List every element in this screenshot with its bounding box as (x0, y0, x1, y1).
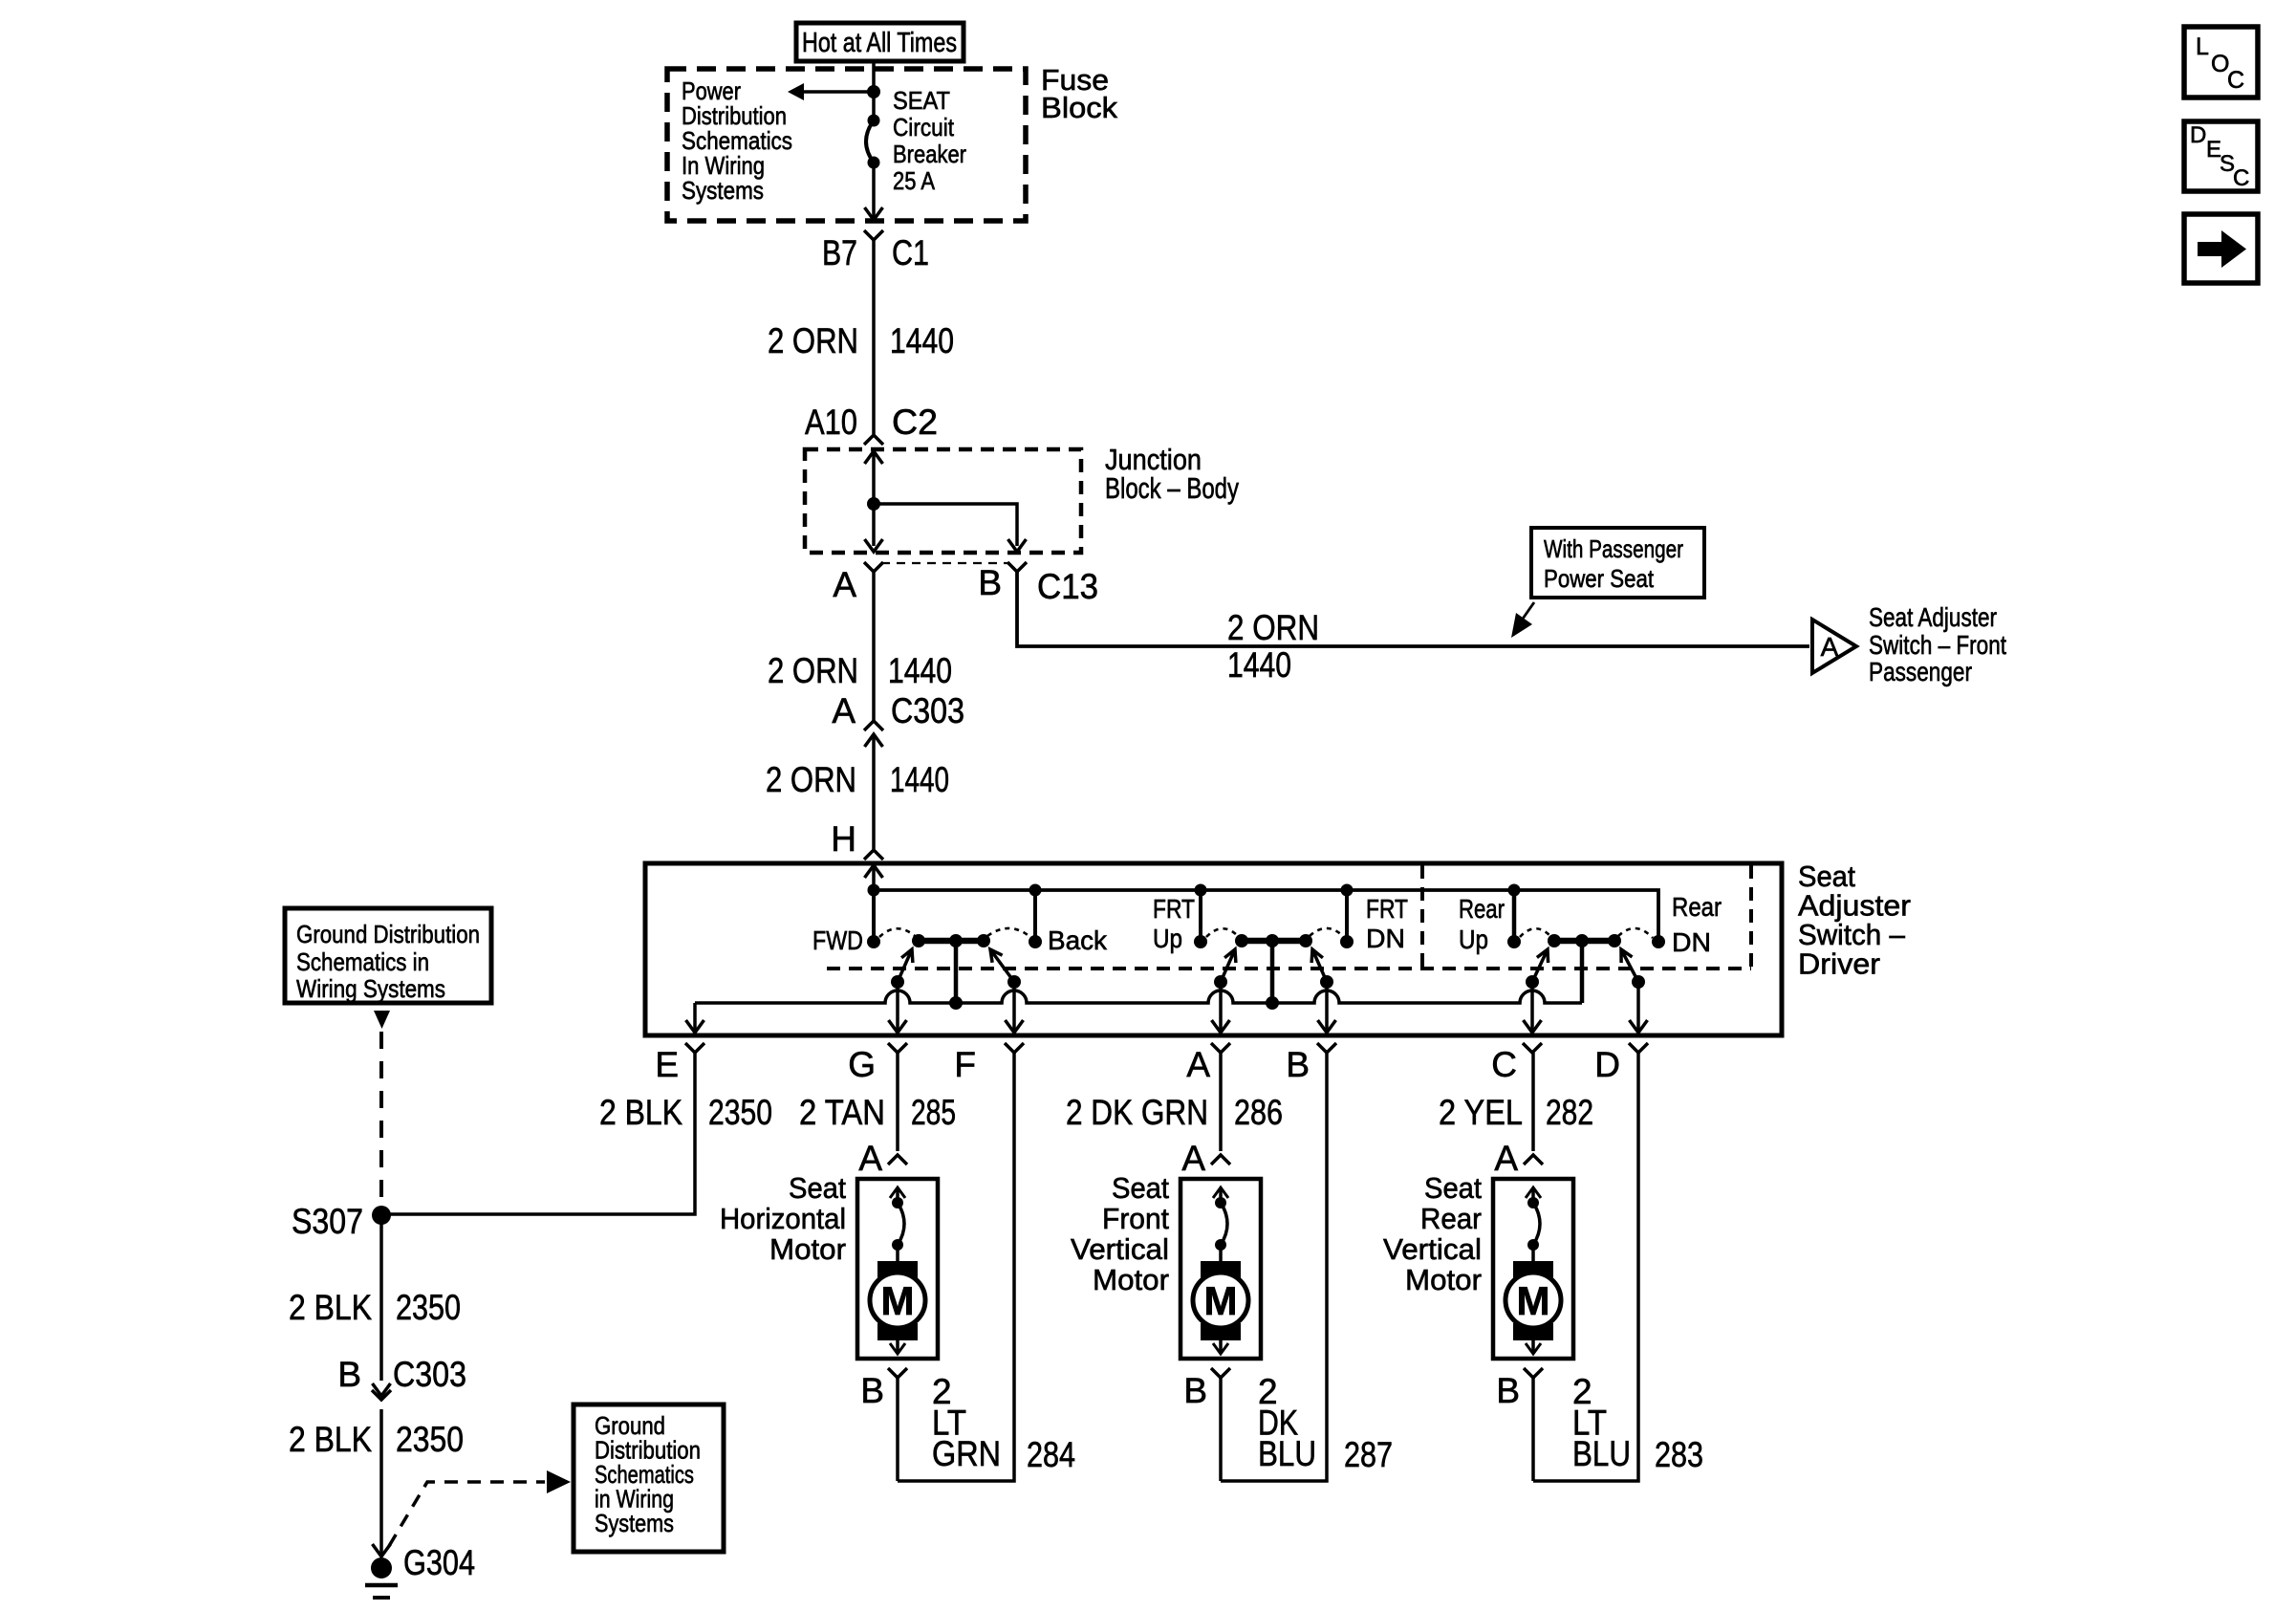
motor M - Seat Front Vertical Motor (1180, 1179, 1261, 1359)
svg-text:Up: Up (1153, 924, 1182, 953)
motor M - Seat Horizontal Motor (857, 1179, 938, 1359)
nav icon box LOC (2184, 27, 2258, 98)
svg-text:A10: A10 (805, 403, 857, 442)
note box: Ground Distribution Schematics in Wiring Systems (upper) (285, 908, 491, 1003)
wire - switch output C drop to pin (1524, 982, 1542, 1033)
label FRT Up (1153, 894, 1195, 953)
wire label 2 BLK 2350 (S307 to C303) (289, 1288, 461, 1327)
svg-text:DN: DN (1672, 927, 1711, 957)
dashed contact arc Rear Up (1520, 928, 1550, 937)
wire - dashed ground distribution link (379, 1032, 383, 1207)
label: Seat Horizontal Motor (720, 1171, 846, 1266)
node - bus junction at FRT DN (1341, 884, 1354, 897)
connector C13 pin A (driver feed) (833, 562, 883, 604)
svg-text:284: 284 (1027, 1435, 1075, 1474)
junction block - body (dashed outline) (805, 449, 1081, 553)
svg-text:Block: Block (1041, 91, 1118, 124)
svg-text:M: M (881, 1278, 915, 1323)
svg-text:B7: B7 (822, 233, 857, 272)
svg-text:2350: 2350 (396, 1420, 464, 1459)
wire - 2 ORN 1440 C13 to C303 (872, 571, 876, 721)
svg-text:DN: DN (1366, 924, 1405, 953)
wire - breaker output to connector C1 (865, 163, 883, 220)
svg-text:285: 285 (911, 1093, 956, 1132)
svg-text:BLU: BLU (1258, 1434, 1316, 1473)
contact - FRT DN (1340, 935, 1354, 948)
off-page connector triangle A - Seat Adjuster Switch Front Passenger (1812, 620, 1856, 673)
wire - arrow to power distribution schematics (788, 83, 874, 100)
svg-text:Rear: Rear (1420, 1202, 1482, 1235)
svg-text:D: D (1594, 1045, 1620, 1084)
wire label 2 ORN 1440 (passenger branch) (1227, 608, 1319, 685)
node - junction dot to power distribution arrow (867, 85, 880, 98)
svg-text:FRT: FRT (1366, 894, 1408, 924)
svg-text:B: B (978, 563, 1002, 602)
svg-text:Circuit: Circuit (893, 113, 955, 142)
svg-text:Rear: Rear (1672, 892, 1722, 922)
dashed contact arc Rear DN (1618, 928, 1653, 938)
wire - wiper common drop (front vertical) (1266, 941, 1279, 1010)
fuse block outline (dashed) (667, 69, 1026, 221)
connector - Seat Front Vertical Motor pin B (1183, 1368, 1230, 1481)
node - switch output F (1007, 975, 1021, 989)
svg-text:2 ORN: 2 ORN (768, 651, 858, 690)
svg-text:B: B (1286, 1045, 1310, 1084)
wire - bus drop to FRT DN contact (1345, 890, 1349, 942)
svg-text:Schematics in: Schematics in (296, 947, 429, 976)
contact - Rear DN (1652, 935, 1665, 948)
wire - switch output A drop to pin (1212, 982, 1230, 1033)
switch wiper bar - front vertical motor switch (1235, 934, 1312, 947)
node - bus junction at Back (1029, 884, 1042, 897)
dashed contact arc FWD (879, 928, 915, 937)
connector - switch pin G (848, 1043, 907, 1084)
svg-text:A: A (833, 565, 856, 604)
svg-text:Motor: Motor (1405, 1263, 1482, 1296)
svg-text:2 ORN: 2 ORN (766, 760, 856, 799)
svg-text:BLU: BLU (1572, 1434, 1631, 1473)
svg-text:Ground Distribution: Ground Distribution (296, 920, 480, 948)
solid arrowhead from ground distribution note (374, 1011, 390, 1029)
svg-text:B: B (1183, 1371, 1207, 1410)
svg-text:Up: Up (1459, 925, 1488, 954)
svg-text:M: M (1517, 1278, 1550, 1323)
svg-text:25 A: 25 A (893, 166, 936, 195)
svg-text:1440: 1440 (890, 321, 954, 360)
svg-text:FRT: FRT (1153, 894, 1195, 924)
svg-text:B: B (337, 1355, 361, 1394)
svg-text:Motor: Motor (1093, 1263, 1169, 1296)
svg-text:A: A (1821, 632, 1839, 662)
node - bus junction at FWD (868, 884, 880, 897)
wire - switch feed entering pin H (865, 865, 883, 890)
wire label 2 DK GRN 286 (1066, 1093, 1283, 1132)
label Rear DN (1672, 892, 1722, 957)
svg-text:S307: S307 (292, 1202, 363, 1241)
wire - switch output B drop to pin (1318, 982, 1336, 1033)
svg-text:Wiring Systems: Wiring Systems (296, 974, 445, 1003)
label FRT DN (1366, 894, 1408, 953)
svg-text:2350: 2350 (396, 1288, 461, 1327)
contact - Back (1029, 935, 1042, 948)
fuse block label (1041, 63, 1118, 124)
svg-text:Seat Adjuster: Seat Adjuster (1869, 602, 1997, 632)
ground G304 (365, 1543, 475, 1598)
svg-text:Front: Front (1102, 1202, 1169, 1235)
svg-text:Power Seat: Power Seat (1544, 564, 1655, 593)
svg-text:C303: C303 (393, 1355, 466, 1394)
wire - pin F to horizontal motor pin B loop (898, 1053, 1014, 1481)
wire - switch common return line to pin E (with hops) (695, 991, 1582, 1003)
wire - pin C to rear vertical motor pin A (1531, 1053, 1535, 1151)
connector - switch pin H (831, 819, 883, 860)
wire label 2 LT BLU 283 (1572, 1372, 1703, 1474)
svg-text:1440: 1440 (890, 760, 949, 799)
svg-text:C: C (2227, 67, 2244, 94)
svg-text:2 DK GRN: 2 DK GRN (1066, 1093, 1208, 1132)
svg-text:2 BLK: 2 BLK (289, 1420, 372, 1459)
wire label 2 LT GRN 284 (932, 1372, 1075, 1474)
connector - Seat Rear Vertical Motor pin B (1496, 1368, 1543, 1481)
svg-text:A: A (1494, 1139, 1518, 1178)
svg-text:2 BLK: 2 BLK (289, 1288, 372, 1327)
wire - pin E drop (686, 1003, 704, 1033)
wire label 2 BLK 2350 (C303 to G304) (289, 1420, 464, 1459)
connector - switch pin F (954, 1043, 1024, 1084)
wire - 2 ORN 1440 branch to passenger seat switch (1017, 571, 1809, 646)
contact - FWD (867, 935, 880, 948)
svg-text:Driver: Driver (1798, 947, 1880, 981)
wire - bus drop to FRT Up contact (1199, 890, 1202, 942)
contact - FRT Up (1194, 935, 1207, 948)
svg-text:M: M (1204, 1278, 1238, 1323)
node - bus junction at Rear Up (1508, 884, 1521, 897)
switch throw arrow - output G to wiper (898, 949, 913, 982)
svg-text:2350: 2350 (708, 1093, 772, 1132)
dashed contact arc Back (987, 928, 1031, 938)
node - switch output A (1214, 975, 1227, 989)
svg-text:Motor: Motor (769, 1232, 846, 1266)
svg-text:C: C (2233, 165, 2249, 191)
svg-text:Passenger: Passenger (1869, 657, 1972, 686)
svg-text:A: A (858, 1139, 882, 1178)
svg-text:Back: Back (1048, 925, 1108, 955)
wire label 2 ORN 1440 (circuit 1440, fuse to junction block) (768, 321, 954, 360)
wire - pin B to front vertical motor pin B loop (1221, 1053, 1327, 1481)
connector - switch pin B (1286, 1043, 1336, 1084)
switch throw arrow - output D to wiper (1621, 949, 1638, 982)
node S - junction block splice (867, 497, 880, 511)
svg-text:2 ORN: 2 ORN (1227, 608, 1319, 647)
wire - bus drop to Back contact (1033, 890, 1037, 942)
wire - switch output F drop to pin (1006, 982, 1024, 1033)
svg-text:C1: C1 (892, 233, 929, 272)
svg-text:2 ORN: 2 ORN (768, 321, 858, 360)
svg-text:C: C (1491, 1045, 1517, 1084)
label: Seat Front Vertical Motor (1071, 1171, 1169, 1296)
label: SEAT Circuit Breaker 25 A (893, 86, 966, 195)
svg-text:Switch – Front: Switch – Front (1869, 630, 2006, 660)
connector - Seat Front Vertical Motor pin A (1181, 1139, 1230, 1178)
wire - junction block branch to C13 pin B (874, 504, 1027, 552)
dashed contact arc FRT Up (1206, 928, 1238, 937)
label FWD (812, 925, 863, 955)
connector - switch pin E (655, 1043, 704, 1084)
svg-text:Seat: Seat (789, 1171, 846, 1205)
connector - Seat Rear Vertical Motor pin A (1494, 1139, 1543, 1178)
svg-text:A: A (1181, 1139, 1205, 1178)
svg-text:C2: C2 (892, 403, 938, 442)
svg-text:Horizontal: Horizontal (720, 1202, 846, 1235)
connector C2 pin A10 (805, 403, 938, 445)
svg-text:C303: C303 (891, 691, 964, 730)
nav icon box arrow (2184, 214, 2258, 283)
wire label 2 TAN 285 (799, 1093, 956, 1132)
wire - bus drop to FWD contact (872, 890, 876, 942)
svg-text:E: E (655, 1045, 679, 1084)
svg-text:A: A (832, 691, 856, 730)
wire label 2 YEL 282 (1439, 1093, 1593, 1132)
svg-text:B: B (860, 1371, 884, 1410)
wire - dashed link to ground distribution note (lower) (389, 1470, 571, 1546)
svg-text:G: G (848, 1045, 876, 1084)
switch assembly box - Seat Adjuster Switch Driver (645, 863, 1782, 1035)
switch wiper bar - horizontal motor switch (912, 934, 990, 947)
wire - battery feed into fuse block (872, 63, 876, 120)
wire - pin G to horizontal motor pin A (896, 1053, 899, 1151)
svg-text:Hot at All Times: Hot at All Times (802, 28, 957, 58)
connector - switch pin A (1186, 1043, 1230, 1084)
splice S307 (292, 1202, 391, 1241)
wire label 2 ORN 1440 (C303 to switch) (766, 760, 949, 799)
note box: Ground Distribution Schematics in Wiring Systems (lower) (574, 1404, 724, 1552)
label Rear Up (1459, 894, 1505, 954)
dashed contact arc FRT DN (1310, 928, 1345, 938)
label Back (1048, 925, 1108, 955)
svg-text:Seat: Seat (1112, 1171, 1169, 1205)
node - switch output B (1320, 975, 1333, 989)
wire - switch output D drop to pin (1630, 982, 1648, 1033)
wire label 2 DK BLU 287 (1258, 1372, 1393, 1474)
dashed actuator tie bar (switch knob, left+right sections) (827, 865, 1751, 969)
note text: Power Distribution Schematics In Wiring Systems (682, 76, 792, 205)
svg-text:G304: G304 (403, 1543, 475, 1582)
svg-text:286: 286 (1234, 1093, 1283, 1132)
svg-text:1440: 1440 (1227, 645, 1291, 685)
connector - switch pin D (1594, 1043, 1648, 1084)
label: Seat Adjuster Switch - Front Passenger (1869, 602, 2006, 686)
svg-text:H: H (831, 819, 856, 859)
svg-text:1440: 1440 (888, 651, 952, 690)
wire - S307 to C303 pin B (373, 1215, 391, 1396)
connector C13 pin B (passenger feed) (978, 562, 1098, 606)
svg-text:Block – Body: Block – Body (1105, 471, 1239, 505)
wire - pin D to rear vertical motor pin B loop (1533, 1053, 1638, 1481)
wire - junction block internal feed (865, 451, 883, 552)
node - switch output C (1526, 975, 1539, 989)
svg-text:GRN: GRN (932, 1434, 1001, 1473)
node B+ feed label box 'Hot at All Times' (796, 23, 964, 61)
switch wiper bar - rear vertical motor switch (1548, 934, 1621, 947)
node - bus junction at FRT Up (1195, 884, 1207, 897)
wire - switch B+ bus (874, 890, 1658, 942)
svg-text:283: 283 (1655, 1435, 1703, 1474)
connector - Seat Horizontal Motor pin A (858, 1139, 907, 1178)
wire - switch output G drop to pin (889, 982, 907, 1033)
svg-text:SEAT: SEAT (893, 86, 950, 115)
circuit breaker CB - SEAT Circuit Breaker 25 A (866, 115, 880, 169)
wire label 2 ORN 1440 (junction block to C303) (768, 651, 952, 690)
contact - Rear Up (1507, 935, 1521, 948)
svg-text:Seat: Seat (1424, 1171, 1482, 1205)
switch throw arrow - output C to wiper (1532, 949, 1549, 982)
svg-text:2 YEL: 2 YEL (1439, 1093, 1523, 1132)
switch throw arrow - output A to wiper (1221, 949, 1236, 982)
connector C1 pin B7 (822, 230, 929, 434)
svg-text:Breaker: Breaker (893, 140, 966, 168)
svg-text:Rear: Rear (1459, 894, 1505, 924)
wire label 2 BLK 2350 (pin E ground) (599, 1093, 772, 1132)
wire - wiper common drop (rear vertical) (1580, 941, 1585, 1003)
nav icon box DESC (2184, 121, 2258, 191)
svg-text:L: L (2196, 33, 2209, 60)
wire - pin E to splice S307 (389, 1053, 695, 1214)
wire - bus drop to Rear Up contact (1512, 890, 1517, 942)
svg-text:With Passenger: With Passenger (1544, 534, 1683, 563)
svg-text:Vertical: Vertical (1383, 1232, 1482, 1266)
label: Seat Rear Vertical Motor (1383, 1171, 1482, 1296)
node - switch output D (1632, 975, 1645, 989)
connector C303 pin A (832, 691, 964, 849)
switch throw arrow - output B to wiper (1311, 949, 1327, 982)
svg-text:287: 287 (1344, 1435, 1393, 1474)
svg-text:B: B (1496, 1371, 1520, 1410)
svg-text:2 TAN: 2 TAN (799, 1093, 885, 1132)
connector C13 body (dashed tie line) (881, 562, 1009, 564)
svg-text:Vertical: Vertical (1071, 1232, 1169, 1266)
wire - wiper common drop (horizontal) (949, 941, 963, 1010)
switch throw arrow - output F to wiper (990, 949, 1014, 982)
svg-text:2 BLK: 2 BLK (599, 1093, 682, 1132)
svg-text:282: 282 (1546, 1093, 1593, 1132)
junction block label (1105, 443, 1239, 505)
connector - switch pin C (1491, 1043, 1542, 1084)
svg-text:A: A (1186, 1045, 1210, 1084)
svg-text:F: F (954, 1045, 976, 1084)
svg-text:FWD: FWD (812, 925, 863, 955)
svg-text:Systems: Systems (682, 176, 764, 205)
node - switch output G (891, 975, 904, 989)
motor M - Seat Rear Vertical Motor (1493, 1179, 1573, 1359)
option flag box 'With Passenger Power Seat' (1511, 528, 1704, 638)
connector C303 pin B (337, 1355, 466, 1554)
switch label: Seat Adjuster Switch - Driver (1798, 860, 1911, 981)
svg-text:C13: C13 (1037, 567, 1098, 606)
wire - pin A to front vertical motor pin A (1219, 1053, 1223, 1151)
svg-text:D: D (2190, 122, 2206, 148)
connector - Seat Horizontal Motor pin B (860, 1368, 907, 1481)
svg-text:Systems: Systems (595, 1509, 674, 1537)
